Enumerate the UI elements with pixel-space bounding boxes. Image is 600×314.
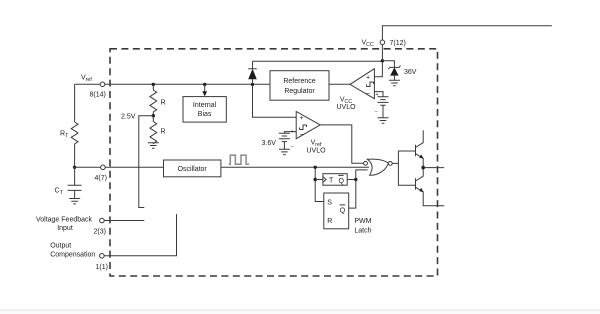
ground under battery 3.6V (279, 149, 290, 154)
wire latch Qbar output to NOR gate (349, 170, 368, 208)
svg-text:+: + (291, 129, 294, 135)
svg-text:S: S (327, 200, 332, 207)
transistor Q-upper (415, 145, 417, 156)
svg-text:Regulator: Regulator (284, 88, 315, 95)
svg-text:R: R (161, 100, 166, 107)
svg-text:+: + (376, 92, 379, 98)
IC dashed border (110, 49, 438, 276)
node diode tap (251, 83, 254, 86)
ground under CT (69, 199, 80, 204)
wire Vref UVLO - input to battery 3.6V (284, 132, 296, 134)
bottom separator line (0, 310, 600, 314)
svg-text:+: + (299, 115, 303, 122)
op-amp Vref UVLO comparator (296, 112, 320, 139)
svg-text:2.5V: 2.5V (121, 114, 136, 121)
T flip-flop box (323, 174, 347, 186)
svg-text:T: T (329, 178, 334, 185)
wire VCC pin stub (382, 26, 551, 61)
oscillator box (164, 160, 221, 177)
svg-text:4(7): 4(7) (95, 175, 107, 182)
svg-text:+: + (366, 74, 370, 81)
wire 2.5V to EA + input (139, 116, 154, 208)
wire to pin 4(7) (75, 166, 164, 168)
svg-text:3.6V: 3.6V (262, 140, 277, 147)
wire arrow into internal bias (204, 84, 206, 91)
svg-text:Q: Q (339, 178, 345, 185)
wire VCC UVLO - input to battery (374, 92, 383, 97)
node oscillator line junction (314, 166, 317, 169)
PWM latch box (324, 193, 349, 229)
ground under zener 36V (389, 80, 400, 85)
svg-text:8(14): 8(14) (90, 92, 106, 99)
svg-text:Compensation: Compensation (50, 251, 95, 258)
node RT/CT junction (73, 166, 76, 169)
wire 2(3) to error amp (104, 220, 144, 222)
clock waveform symbol (229, 155, 249, 164)
svg-text:Q: Q (340, 208, 346, 215)
svg-text:−: − (299, 132, 303, 139)
node R divider top (152, 83, 155, 86)
wire NOR output to totem pole bases (392, 151, 415, 185)
wire down to T flip-flop and latch S (315, 167, 324, 201)
svg-text:−: − (291, 144, 294, 150)
internal bias box (183, 97, 226, 123)
node Vref pin 8(14) (100, 82, 105, 87)
svg-text:−: − (366, 91, 370, 98)
wire Vref rail (75, 83, 270, 85)
resistor R upper (150, 84, 157, 115)
node totem pole output (421, 166, 425, 170)
wire Vref-UVLO + input branch (253, 84, 297, 117)
op-amp U-VCC-UVLO comparator (points left) (350, 69, 374, 99)
svg-text:UVLO: UVLO (336, 104, 356, 111)
ground under R divider (148, 143, 159, 148)
resistor R lower (150, 116, 157, 144)
node internal bias tap (203, 83, 206, 86)
node pin 4(7) (101, 165, 106, 170)
wire T Qbar output (347, 179, 356, 181)
wire diode top rail to VCC junction (253, 60, 383, 62)
svg-text:Latch: Latch (354, 228, 371, 235)
pin 1(1) Output Compensation (100, 254, 105, 259)
resistor RT (71, 122, 78, 167)
node T input junction (314, 178, 317, 181)
wire Vref UVLO output to NOR gate (320, 125, 364, 163)
svg-text:2(3): 2(3) (94, 229, 106, 236)
battery reference (VCC UVLO) (378, 97, 389, 118)
wire output to pin 6(10) (423, 167, 444, 169)
svg-text:7(12): 7(12) (390, 40, 406, 47)
wire VCC UVLO + input (374, 61, 382, 77)
svg-text:1(1): 1(1) (96, 264, 108, 271)
NOR gate U2 (367, 159, 388, 175)
svg-text:Voltage Feedback: Voltage Feedback (36, 217, 93, 224)
svg-text:PWM: PWM (354, 218, 371, 225)
svg-text:R: R (161, 129, 166, 136)
node 2.5V junction (152, 114, 155, 117)
svg-text:Internal: Internal (193, 102, 217, 109)
svg-text:Bias: Bias (198, 111, 212, 118)
capacitor CT (68, 167, 82, 198)
wire Vref to RT (74, 84, 76, 122)
wire 1(1) to EA output (104, 214, 176, 256)
svg-text:Output: Output (50, 243, 71, 250)
svg-text:UVLO: UVLO (306, 148, 326, 155)
transistor Q-lower (415, 178, 417, 189)
ground under VCC UVLO battery (378, 118, 389, 123)
svg-text:R: R (327, 218, 332, 225)
svg-text:−: − (375, 109, 378, 115)
svg-text:Reference: Reference (283, 78, 315, 85)
svg-text:Oscillator: Oscillator (178, 166, 208, 173)
pin 2(3) Voltage Feedback Input (100, 218, 105, 223)
diode to UVLO line (248, 61, 257, 84)
node Qbar merge (354, 178, 357, 181)
battery 3.6V (279, 133, 290, 149)
reference regulator box (270, 71, 329, 101)
svg-text:36V: 36V (404, 69, 417, 76)
wire oscillator output line (221, 166, 369, 168)
svg-text:Input: Input (57, 225, 73, 232)
node VCC junction (381, 59, 384, 62)
node pin VCC 7(12) (380, 40, 385, 45)
wire to T flip-flop clock (315, 179, 323, 181)
wire refreg to VCC UVLO output (329, 83, 350, 85)
zener 36V (382, 61, 400, 81)
